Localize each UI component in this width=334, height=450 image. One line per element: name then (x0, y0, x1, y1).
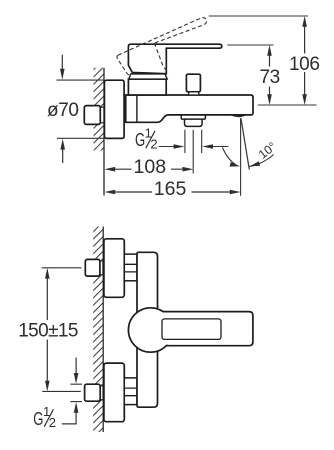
supply nipple side face bottom (lower view) (100, 386, 103, 400)
diverter knob (186, 74, 200, 92)
cartridge cone (129, 74, 167, 79)
lever top face inner outline (162, 319, 221, 340)
spout mouth lip (231, 115, 245, 118)
handle lever raised (dashed position) (117, 18, 207, 76)
svg-text:ø70: ø70 (47, 100, 79, 121)
handle lever (lower view) (163, 312, 253, 346)
G1/2 lower arrow with elbow (lower view) (62, 412, 76, 424)
G1/2 extension lines (upper view) (185, 130, 202, 153)
wall line (upper view) (103, 68, 105, 196)
escutcheon flange o70 (upper view) (104, 80, 124, 138)
dimension 150+-15 extension lines (42, 267, 82, 269)
body flange seam (136, 96, 138, 122)
extension line right of body (for 165 and 10 deg) (240, 118, 242, 196)
handle lever (solid position) (128, 44, 221, 73)
dimension ø70 bottom extension line (57, 137, 104, 139)
supply nipple side face top (lower view) (100, 261, 103, 275)
svg-text:150±15: 150±15 (18, 321, 78, 342)
G1/2 label (upper view) (135, 126, 158, 152)
svg-text:2: 2 (49, 415, 56, 430)
extension line at raised lever tip (for 106) (209, 15, 308, 17)
dimension ø70 top extension line (57, 79, 104, 81)
escutcheon top (lower view) (104, 239, 124, 297)
10 degree arc left with arrow (223, 148, 237, 165)
spout outlet flange (181, 115, 205, 119)
cartridge circle (lower view) (128, 308, 172, 352)
svg-text:106: 106 (289, 54, 320, 75)
svg-text:2: 2 (150, 137, 157, 152)
svg-text:108: 108 (134, 156, 167, 178)
wall hatching (upper view) (94, 68, 104, 151)
faucet body bar (lower view) (137, 252, 158, 407)
extension line at body top right (for 73/106) (258, 104, 317, 106)
wall hatching (lower view) (93, 227, 103, 433)
escutcheon bottom (lower view) (104, 363, 124, 422)
diverter knob base (189, 92, 199, 95)
lever mask (152, 313, 252, 345)
aerator (185, 119, 203, 126)
dimension ø70 up arrow (62, 150, 64, 164)
G1/2 nipple extension stubs (lower view) (70, 384, 82, 401)
union fitting bottom (lower view) (124, 378, 137, 405)
supply nipple top (lower view) (85, 259, 100, 276)
supply nipple G1/2 (upper view) (84, 106, 100, 125)
wall line (lower view) (102, 227, 104, 433)
dimension 165 line and arrows (115, 191, 230, 193)
dimension 106 line and arrows (304, 27, 306, 95)
extension line at lever top (for 73) (227, 44, 273, 46)
10 degree arc right with arrow (249, 155, 273, 167)
G1/2 upper arrow (lower view) (75, 358, 77, 374)
10 degree slant line (241, 118, 249, 170)
svg-text:165: 165 (154, 178, 187, 200)
faucet body (upper view) (126, 95, 253, 122)
union fitting top (lower view) (124, 254, 137, 281)
supply nipple bottom (lower view) (85, 384, 101, 401)
svg-text:G: G (33, 409, 43, 429)
dimension 108 line and arrows (115, 168, 183, 170)
dimension ø70 down arrow (61, 55, 63, 69)
cartridge housing (128, 79, 166, 95)
dimension 150+-15 line and arrows (46, 279, 48, 381)
spout centerline (192, 130, 194, 174)
supply nipple side face (upper view) (100, 107, 104, 123)
dimension 73 line and arrows (269, 56, 271, 96)
svg-text:73: 73 (260, 67, 280, 88)
G1/2 dimension arrows (upper view) (159, 146, 175, 148)
G1/2 label (lower view) (33, 404, 56, 430)
